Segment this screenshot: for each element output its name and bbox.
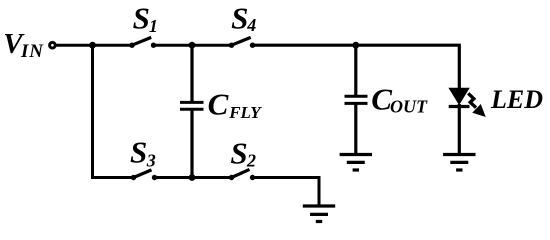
svg-text:S: S <box>230 135 247 170</box>
svg-text:S: S <box>133 1 150 36</box>
svg-text:3: 3 <box>146 150 156 170</box>
input terminal <box>50 42 56 48</box>
wire C_FLY to node C <box>190 109 193 177</box>
svg-text:2: 2 <box>246 151 256 171</box>
node C <box>189 174 196 181</box>
switch S4 <box>229 37 255 48</box>
LED light arrow <box>468 93 484 116</box>
svg-text:1: 1 <box>149 16 158 36</box>
svg-text:C: C <box>208 87 229 122</box>
LED D1 <box>449 88 470 106</box>
ground (C_OUT) <box>340 155 372 171</box>
wire terminal to node A <box>56 44 92 47</box>
wire S3 to node C <box>155 176 193 179</box>
node D <box>352 42 359 49</box>
wire S1 to node B <box>154 44 193 47</box>
wire node A down and right to S3 <box>93 45 134 177</box>
switch S2 <box>229 169 255 180</box>
switch S1 <box>129 37 156 48</box>
svg-text:LED: LED <box>490 85 543 114</box>
wire S2 to ground <box>253 178 320 207</box>
capacitor C_OUT <box>345 96 368 103</box>
ground (S2) <box>303 206 335 222</box>
node A <box>89 42 96 49</box>
label C_FLY <box>208 87 263 123</box>
svg-text:S: S <box>130 135 147 170</box>
ground (LED) <box>443 155 475 171</box>
wire node B to S4 <box>192 44 232 47</box>
wire node B to C_FLY <box>190 45 193 102</box>
label C_OUT <box>371 82 428 117</box>
label S2 <box>230 135 256 170</box>
svg-text:IN: IN <box>20 41 44 62</box>
wire node C to S2 <box>192 176 232 179</box>
node B <box>189 42 196 49</box>
capacitor C_FLY <box>180 102 204 109</box>
wire C_OUT to ground <box>354 103 357 154</box>
label S1 <box>133 1 158 36</box>
wire node A to S1 <box>93 44 133 47</box>
label S3 <box>130 135 156 171</box>
wire node D to C_OUT <box>354 45 357 96</box>
label V_IN <box>3 28 44 62</box>
svg-text:FLY: FLY <box>228 103 262 122</box>
label S4 <box>231 1 256 36</box>
wire S4 to LED corner <box>253 45 460 89</box>
label LED <box>490 85 543 114</box>
switch S3 <box>131 170 157 180</box>
wire LED to ground <box>458 104 461 155</box>
svg-text:4: 4 <box>246 15 256 35</box>
svg-text:S: S <box>231 1 248 36</box>
svg-text:OUT: OUT <box>390 96 428 116</box>
